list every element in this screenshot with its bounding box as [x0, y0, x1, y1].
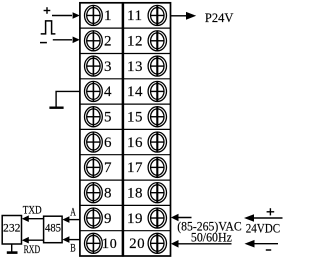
svg-text:B: B [70, 240, 76, 254]
terminal 14 screw [148, 81, 166, 101]
svg-text:13: 13 [127, 59, 143, 75]
terminal 3 screw [85, 56, 103, 76]
svg-text:17: 17 [127, 160, 143, 176]
minus symbol [40, 42, 47, 44]
wire arrow B from terminal 10 into 485 [66, 239, 80, 241]
wire arrow 24VDC plus [250, 217, 283, 219]
svg-text:50/60Hz: 50/60Hz [191, 231, 232, 245]
svg-text:24VDC: 24VDC [246, 222, 281, 236]
terminal 18 screw [148, 183, 166, 203]
svg-text:485: 485 [45, 221, 61, 235]
terminal 4 screw [85, 81, 103, 101]
wire arrow into terminal 1 [52, 15, 72, 17]
terminal 20 screw [148, 233, 166, 253]
svg-text:1: 1 [104, 8, 112, 24]
terminal numbers 11-20 [127, 8, 145, 252]
minus symbol 24VDC [266, 249, 271, 251]
terminal 12 screw [148, 31, 166, 51]
ground under 232 [11, 244, 13, 251]
svg-text:19: 19 [127, 211, 143, 227]
svg-text:0: 0 [110, 237, 118, 252]
svg-text:18: 18 [127, 185, 143, 201]
terminal 5 screw [85, 107, 103, 127]
svg-text:A: A [70, 204, 76, 218]
terminal 15 screw [148, 107, 166, 127]
wire arrow (85-265)VAC into terminal 19 [175, 217, 192, 219]
box 232 [2, 216, 21, 245]
box 485 [44, 216, 63, 243]
plus symbol top left [44, 7, 51, 14]
wire arrow A from terminal 9 into 485 [66, 219, 80, 221]
svg-text:15: 15 [127, 110, 143, 126]
ground symbol [49, 106, 63, 108]
svg-text:6: 6 [104, 135, 112, 151]
row separator lines [80, 28, 171, 231]
svg-text:TXD: TXD [23, 203, 42, 217]
svg-text:8: 8 [104, 185, 112, 201]
terminal block left column box [80, 3, 123, 256]
svg-text:11: 11 [127, 8, 142, 24]
terminal 11 screw [148, 5, 166, 25]
terminal 1 screw [85, 5, 103, 25]
terminal 10 screw [85, 233, 103, 253]
svg-text:14: 14 [127, 84, 143, 100]
svg-text:20: 20 [129, 236, 145, 252]
wire arrow TXD into 232 [26, 218, 44, 220]
wire arrow RXD into 232 [26, 239, 44, 241]
wire arrow P24V out of terminal 11 [171, 15, 187, 17]
svg-text:232: 232 [3, 221, 21, 235]
terminal 16 screw [148, 132, 166, 152]
wire arrow 24VDC minus [250, 243, 278, 245]
svg-text:9: 9 [104, 211, 112, 227]
terminal numbers 1-10 [102, 8, 118, 252]
terminal 17 screw [148, 157, 166, 177]
svg-text:12: 12 [127, 34, 143, 50]
wire arrow 50/60Hz into terminal 20 [175, 243, 232, 245]
svg-text:7: 7 [104, 160, 112, 176]
svg-text:2: 2 [104, 34, 112, 50]
terminal 13 screw [148, 56, 166, 76]
plus symbol 24VDC [267, 208, 275, 215]
svg-text:3: 3 [104, 59, 112, 75]
svg-text:5: 5 [104, 110, 112, 126]
terminal 7 screw [85, 157, 103, 177]
terminal 8 screw [85, 183, 103, 203]
ground wire from terminal 4 [56, 91, 79, 107]
pulse symbol [41, 21, 56, 34]
terminal 9 screw [85, 208, 103, 228]
svg-text:P24V: P24V [205, 11, 233, 25]
svg-text:4: 4 [104, 84, 112, 100]
wire arrow into terminal 2 [53, 39, 72, 41]
terminal block right column box [123, 3, 170, 256]
terminal 19 screw [148, 208, 166, 228]
svg-text:1: 1 [102, 236, 110, 252]
svg-text:16: 16 [127, 135, 143, 151]
svg-text:RXD: RXD [24, 242, 41, 256]
terminal 2 screw [85, 31, 103, 51]
terminal 6 screw [85, 132, 103, 152]
